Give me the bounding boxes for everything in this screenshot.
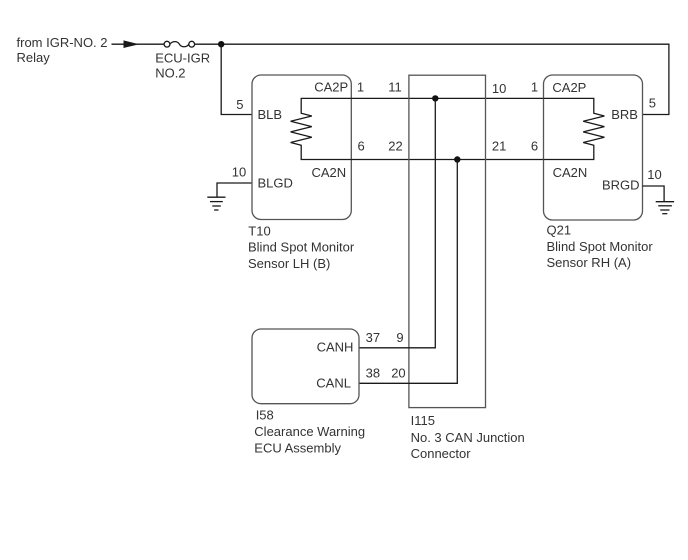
node: from IGR-NO. 2 Relay label xyxy=(17,35,108,65)
wire: CANH branch down to I58 xyxy=(359,98,435,347)
label: T10 designator and name xyxy=(248,224,355,272)
svg-text:10: 10 xyxy=(647,167,661,182)
svg-text:CA2P: CA2P xyxy=(552,80,586,95)
ground (T10 BLGD) xyxy=(207,197,225,210)
svg-text:9: 9 xyxy=(396,330,403,345)
svg-text:11: 11 xyxy=(388,79,402,94)
arrow: power feed direction xyxy=(124,40,140,48)
wire: CAN low bus T10 pin6 to Q21 pin6 through I115 xyxy=(351,159,543,161)
wire: CANL branch down to I58 xyxy=(359,160,457,384)
svg-text:CA2P: CA2P xyxy=(314,79,348,94)
svg-text:CANH: CANH xyxy=(317,340,354,355)
svg-text:1: 1 xyxy=(357,79,364,94)
svg-text:Connector: Connector xyxy=(411,446,472,461)
svg-text:CA2N: CA2N xyxy=(312,165,347,180)
svg-text:I58: I58 xyxy=(256,408,274,423)
svg-text:20: 20 xyxy=(391,365,405,380)
svg-text:BRGD: BRGD xyxy=(602,178,640,193)
wire: T10 pin 10 to ground xyxy=(217,183,252,197)
svg-text:ECU-IGR: ECU-IGR xyxy=(155,51,210,66)
svg-text:Relay: Relay xyxy=(17,50,51,65)
svg-text:Blind Spot Monitor: Blind Spot Monitor xyxy=(248,240,355,255)
svg-text:6: 6 xyxy=(531,138,538,153)
svg-text:Sensor LH (B): Sensor LH (B) xyxy=(248,256,330,271)
ground (Q21 BRGD) xyxy=(656,202,674,214)
svg-text:38: 38 xyxy=(366,365,380,380)
label: Q21 designator and name xyxy=(547,223,654,270)
svg-text:BLGD: BLGD xyxy=(258,176,293,191)
svg-text:6: 6 xyxy=(358,138,365,153)
fuse ECU-IGR NO.2 xyxy=(164,41,195,47)
svg-text:from IGR-NO. 2: from IGR-NO. 2 xyxy=(17,35,108,50)
resistor inside T10 xyxy=(291,98,352,159)
svg-text:22: 22 xyxy=(388,138,402,153)
component box I58 xyxy=(252,329,359,404)
wire: from relay feed to fuse xyxy=(112,43,165,45)
wire: fuse to top-right corner down to Q21 pin 5 xyxy=(195,44,669,114)
svg-text:BRB: BRB xyxy=(611,107,638,122)
wire: junction down to T10 pin 5 (BLB) xyxy=(221,44,252,114)
junction connector I115 box xyxy=(409,75,486,407)
svg-text:No. 3 CAN Junction: No. 3 CAN Junction xyxy=(411,430,525,445)
resistor inside Q21 xyxy=(544,98,605,159)
svg-text:I115: I115 xyxy=(411,413,435,428)
svg-text:1: 1 xyxy=(531,79,538,94)
component box Q21 xyxy=(544,75,643,220)
svg-text:CANL: CANL xyxy=(316,375,351,390)
wire: CAN high bus T10 pin1 to Q21 pin1 through I115 xyxy=(351,97,543,99)
svg-text:37: 37 xyxy=(366,330,380,345)
component box T10 xyxy=(252,75,351,220)
label: fuse name ECU-IGR NO.2 xyxy=(155,51,210,81)
svg-text:Blind Spot Monitor: Blind Spot Monitor xyxy=(547,239,654,254)
svg-text:5: 5 xyxy=(236,97,243,112)
svg-text:10: 10 xyxy=(492,81,506,96)
svg-text:NO.2: NO.2 xyxy=(155,66,185,81)
svg-text:T10: T10 xyxy=(248,224,270,239)
wire: Q21 pin 10 to ground xyxy=(643,186,665,202)
svg-text:Q21: Q21 xyxy=(547,223,572,238)
svg-text:5: 5 xyxy=(649,96,656,111)
svg-text:Sensor RH (A): Sensor RH (A) xyxy=(547,255,632,270)
label: I115 designator and name xyxy=(411,413,525,461)
svg-text:ECU Assembly: ECU Assembly xyxy=(254,440,341,455)
label: I58 designator and name xyxy=(254,408,365,456)
junction dot on CAN high inside I115 xyxy=(432,95,438,101)
svg-text:Clearance Warning: Clearance Warning xyxy=(254,424,365,439)
svg-text:21: 21 xyxy=(492,138,506,153)
svg-text:10: 10 xyxy=(232,164,246,179)
svg-text:BLB: BLB xyxy=(258,107,283,122)
junction dot on CAN low inside I115 xyxy=(454,156,460,162)
svg-text:CA2N: CA2N xyxy=(553,165,588,180)
junction dot at fuse output node xyxy=(218,41,224,47)
